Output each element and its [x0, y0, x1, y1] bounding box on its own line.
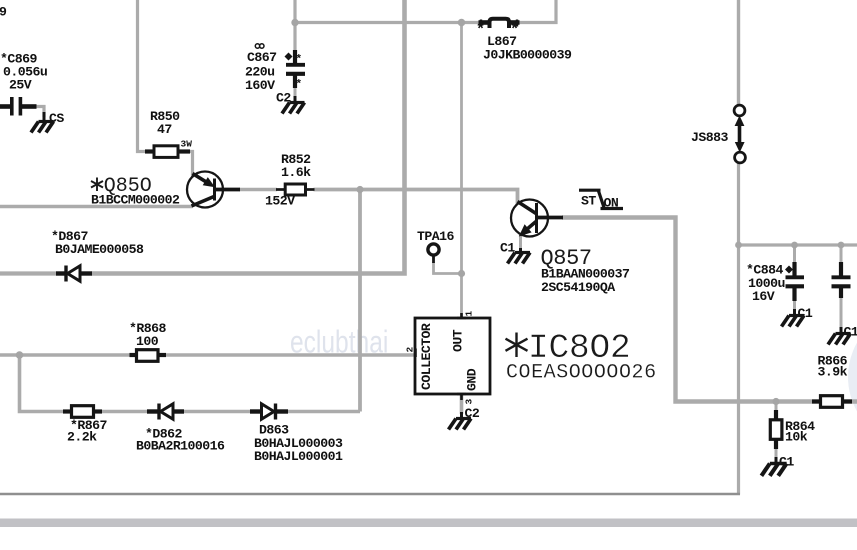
transistor Q850 — [187, 172, 240, 208]
wire Q857 emitter stub — [519, 235, 522, 250]
wire Q850 collector row y206 — [0, 205, 193, 208]
svg-text:ON: ON — [604, 196, 619, 211]
wire TPA16 elbow — [434, 262, 462, 274]
node R852/x360 junction — [356, 186, 363, 193]
wire C884 lower stub — [793, 300, 796, 311]
svg-text:GND: GND — [465, 368, 480, 391]
ground C1 (R864) — [761, 457, 786, 476]
ground C1 (Q857) — [508, 248, 531, 264]
svg-text:100: 100 — [136, 334, 159, 349]
wire R868 row y355 to IC802 pin2 — [0, 353, 131, 356]
node top C867 junction — [291, 19, 298, 26]
svg-text:10k: 10k — [785, 430, 808, 445]
wire border vertical x738 lower — [737, 163, 740, 495]
svg-text:2.2k: 2.2k — [67, 430, 97, 445]
ground C2 (IC802) — [449, 412, 472, 430]
wire cap row y245 — [739, 243, 857, 246]
wire vertical x137 top to R850 — [138, 0, 147, 152]
wire D867 right to x404 vertical to top — [92, 0, 405, 274]
wire border vertical x738 upper — [737, 0, 740, 105]
svg-text:B1BCCM000002: B1BCCM000002 — [91, 193, 180, 208]
svg-text:2SC54190QA: 2SC54190QA — [541, 280, 615, 295]
C867 polarity marks — [285, 53, 303, 92]
svg-text:TPA16: TPA16 — [417, 229, 454, 244]
svg-text:*: * — [296, 54, 303, 66]
svg-text:*: * — [296, 79, 303, 91]
node R864 junction — [772, 398, 779, 405]
svg-text:ST: ST — [581, 194, 596, 209]
wire D862 to D863 — [183, 410, 251, 414]
resistor R867 — [63, 406, 102, 418]
svg-text:16V: 16V — [752, 289, 775, 304]
test point TPA16 — [428, 244, 439, 255]
svg-text:B0JAME000058: B0JAME000058 — [55, 242, 144, 257]
svg-text:3W: 3W — [181, 139, 193, 150]
ground C1 (C885) — [828, 327, 851, 345]
wire R864 lower stub — [775, 447, 778, 459]
node C884 junction — [791, 242, 798, 249]
capacitor C885 — [832, 262, 851, 298]
resistor R850 — [145, 146, 190, 158]
wire vertical x360 — [358, 190, 362, 412]
svg-text:J0JKB0000039: J0JKB0000039 — [483, 48, 572, 63]
transistor Q857 — [511, 200, 563, 237]
ground C1 (C884) — [782, 309, 805, 327]
inductor L867 — [479, 19, 520, 28]
jumper JS883 — [734, 105, 745, 163]
svg-text:152V: 152V — [265, 194, 295, 209]
svg-text:COLLECTOR: COLLECTOR — [419, 323, 434, 390]
node C885 junction — [838, 242, 845, 249]
signal label ST/ON — [579, 190, 623, 208]
svg-text:OUT: OUT — [451, 329, 466, 352]
border bottom line — [0, 493, 740, 496]
ground CS — [31, 112, 54, 133]
wire R867 to D862 — [101, 410, 148, 414]
resistor R852 — [276, 184, 315, 195]
IC U-IC802 box — [415, 313, 490, 400]
diode D863 — [250, 404, 288, 420]
bottom light bar — [0, 519, 857, 528]
wire vertical x462 pin1 — [460, 23, 463, 319]
svg-text:COEASOOOOO26: COEASOOOOO26 — [506, 362, 657, 385]
wire C884 stub — [793, 245, 796, 264]
svg-text:160V: 160V — [245, 78, 275, 93]
wire C869 elbow to CS ground — [36, 107, 44, 118]
resistor R868 — [130, 350, 167, 362]
wire IC802 pin3 stub — [460, 394, 464, 414]
svg-text:C867: C867 — [247, 50, 277, 65]
wire R864 stub — [775, 402, 778, 413]
diode D867 — [56, 266, 92, 282]
node R868 branch junction — [16, 351, 24, 359]
capacitor C867 — [286, 50, 305, 88]
capacitor C884 — [786, 262, 805, 301]
wire D863 to x360 riser — [287, 410, 360, 414]
wire C867 top feed — [293, 0, 296, 52]
wire D867 row y274 up x404 — [0, 271, 57, 275]
infinity mark — [255, 44, 264, 48]
capacitor C869 — [0, 97, 37, 116]
node L867 left junction — [458, 19, 466, 27]
node TPA16 junction — [458, 270, 465, 277]
wire R852 to Q857 top — [314, 190, 518, 205]
wire C885 lower stub — [840, 297, 843, 329]
svg-text:B0BA2R100016: B0BA2R100016 — [136, 439, 225, 454]
svg-text:25V: 25V — [9, 78, 32, 93]
wire L867 right corner up — [519, 0, 557, 23]
wire top row y22 to L867 — [295, 21, 480, 24]
wire R850 right elbow down to Q850 — [189, 152, 193, 178]
wire Q850 base to R852 — [239, 188, 277, 191]
wire branch x19 down — [20, 355, 66, 412]
svg-text:1: 1 — [464, 311, 475, 317]
svg-text:47: 47 — [157, 122, 172, 137]
svg-text:1.6k: 1.6k — [281, 165, 311, 180]
svg-text:9: 9 — [0, 5, 7, 20]
wire C885 stub — [840, 245, 843, 264]
svg-text:B0HAJL000001: B0HAJL000001 — [254, 449, 343, 464]
diode D862 — [147, 404, 184, 420]
svg-text:3.9k: 3.9k — [818, 365, 848, 380]
resistor R864 — [770, 410, 782, 449]
wire R868 right to IC pin2 — [165, 353, 416, 356]
svg-text:3: 3 — [464, 399, 475, 405]
resistor R866 — [812, 396, 852, 408]
svg-text:JS883: JS883 — [691, 130, 728, 145]
wire C867 ground stub — [294, 86, 297, 99]
watermark circle right edge — [853, 312, 857, 442]
wire Q857 base to right riser down to R864 row — [562, 218, 857, 402]
svg-text:2: 2 — [405, 347, 416, 353]
node border/cap row junction — [735, 242, 742, 249]
ground C2 (C867) — [282, 96, 305, 114]
